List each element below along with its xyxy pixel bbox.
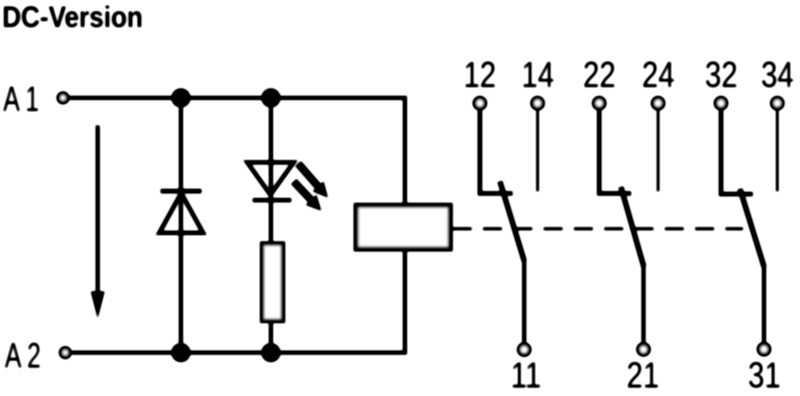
terminal 34 (772, 98, 783, 109)
terminal 14 (532, 98, 543, 109)
resistor R1 (262, 244, 283, 321)
terminal 22 (594, 98, 605, 109)
svg-text:24: 24 (642, 55, 675, 96)
wire arm3 to 31 (762, 266, 766, 342)
svg-text:DC-Version: DC-Version (2, 0, 143, 33)
contact arm 3 (740, 189, 764, 267)
wire led branch (269, 98, 273, 353)
terminal A2 (61, 348, 70, 357)
svg-text:34: 34 (761, 55, 794, 96)
junction A1-diode (171, 88, 190, 107)
terminal 32 (716, 98, 727, 109)
terminal 11 (519, 344, 530, 355)
LED emission arrow 1 (298, 164, 328, 198)
wire arm1 to 11 (522, 260, 526, 342)
svg-text:14: 14 (521, 55, 554, 96)
svg-text:A 1: A 1 (3, 80, 39, 119)
arrow polarity (91, 125, 105, 318)
wire 34 stub (776, 110, 779, 191)
terminal A1 (59, 93, 68, 102)
wire A1 rail (69, 98, 405, 203)
junction A2-diode (171, 343, 190, 362)
wire 14 stub (536, 110, 539, 191)
junction A1-led (261, 88, 280, 107)
terminal 24 (653, 98, 664, 109)
wire diode branch (179, 98, 183, 353)
svg-text:11: 11 (511, 355, 542, 396)
terminal 12 (475, 98, 486, 109)
wire 32 to NC contact (721, 110, 753, 194)
terminal 31 (759, 344, 770, 355)
contact arm 2 (621, 187, 644, 267)
svg-text:31: 31 (748, 355, 781, 396)
contact arm 1 (500, 181, 524, 261)
LED emission arrow 2 (294, 181, 322, 210)
wire 22 to NC contact (599, 110, 631, 193)
junction A2-led (261, 343, 280, 362)
dashed actuator link (453, 227, 743, 230)
wire A2 rail (72, 251, 405, 352)
LED V2 (247, 162, 293, 200)
svg-text:21: 21 (627, 355, 660, 396)
svg-text:A 2: A 2 (5, 336, 41, 375)
terminal 21 (638, 344, 649, 355)
svg-text:22: 22 (583, 55, 616, 96)
diode V1 (159, 191, 203, 233)
relay coil K1 (356, 205, 450, 249)
wire 24 stub (657, 110, 660, 191)
wire 12 to NC contact (480, 110, 513, 193)
svg-text:12: 12 (463, 55, 496, 96)
svg-text:32: 32 (705, 55, 738, 96)
wire arm2 to 21 (642, 266, 646, 342)
